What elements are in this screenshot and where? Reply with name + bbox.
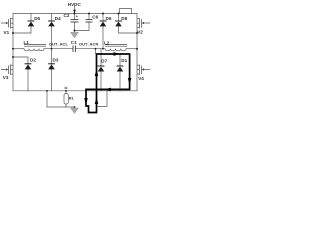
svg-text:C6: C6 [92,15,98,20]
svg-text:V3: V3 [3,75,9,80]
svg-text:V4: V4 [138,76,144,81]
svg-text:OUT_ACL: OUT_ACL [49,41,68,46]
svg-text:D2: D2 [30,58,36,63]
svg-text:D6: D6 [106,16,112,21]
svg-text:D8: D8 [121,16,127,21]
svg-text:D5: D5 [34,16,40,21]
svg-text:D3: D3 [53,58,59,63]
svg-text:C2: C2 [64,13,70,18]
svg-text:R1: R1 [69,97,74,101]
svg-text:D1: D1 [121,58,127,63]
svg-text:D7: D7 [101,59,107,64]
svg-text:C1: C1 [71,40,77,45]
svg-text:V2: V2 [137,30,143,35]
svg-text:L1: L1 [24,40,30,45]
svg-text:OUT_ACN: OUT_ACN [79,41,98,46]
svg-text:Ic: Ic [65,86,68,90]
svg-text:HVDC: HVDC [68,2,82,7]
svg-text:D4: D4 [55,16,61,21]
svg-text:V1: V1 [4,30,10,35]
svg-text:L2: L2 [104,41,110,46]
